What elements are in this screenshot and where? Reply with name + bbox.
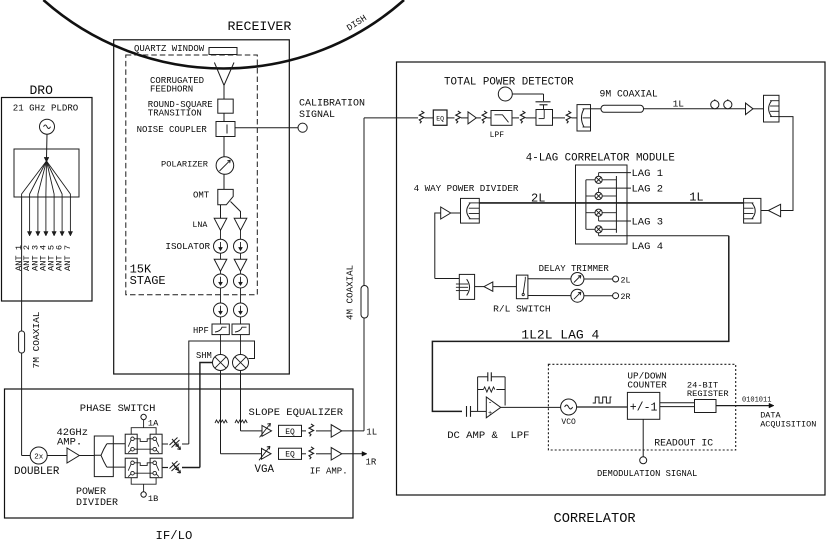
svg-text:1A: 1A xyxy=(148,419,159,429)
svg-text:VCO: VCO xyxy=(561,418,576,427)
svg-text:CORRELATOR: CORRELATOR xyxy=(554,512,636,527)
svg-text:LAG 1: LAG 1 xyxy=(632,168,664,180)
svg-text:SIGNAL: SIGNAL xyxy=(299,110,335,121)
svg-text:2R: 2R xyxy=(621,293,631,302)
svg-text:SHM: SHM xyxy=(196,351,212,361)
svg-text:AMP.: AMP. xyxy=(57,437,82,449)
svg-text:9M COAXIAL: 9M COAXIAL xyxy=(600,88,658,99)
svg-text:2L: 2L xyxy=(531,192,545,206)
svg-text:2x: 2x xyxy=(34,453,44,461)
svg-text:DRO: DRO xyxy=(30,83,54,98)
svg-text:DELAY TRIMMER: DELAY TRIMMER xyxy=(539,264,610,274)
svg-text:EQ: EQ xyxy=(285,451,295,460)
svg-text:EQ: EQ xyxy=(436,116,444,123)
svg-text:CALIBRATION: CALIBRATION xyxy=(299,99,365,110)
svg-text:1L: 1L xyxy=(673,98,685,109)
svg-text:DC AMP & LPF: DC AMP & LPF xyxy=(447,430,529,442)
svg-text:21 GHz PLDRO: 21 GHz PLDRO xyxy=(13,103,79,114)
svg-text:EQ: EQ xyxy=(285,428,295,437)
svg-text:LPF: LPF xyxy=(490,131,505,140)
svg-text:2L: 2L xyxy=(621,276,631,285)
svg-text:0101011: 0101011 xyxy=(742,396,771,404)
svg-text:1L: 1L xyxy=(366,427,377,437)
svg-text:TRANSITION: TRANSITION xyxy=(148,109,202,119)
svg-text:ANT 7: ANT 7 xyxy=(63,245,73,271)
svg-text:TOTAL POWER DETECTOR: TOTAL POWER DETECTOR xyxy=(444,76,574,88)
svg-text:NOISE COUPLER: NOISE COUPLER xyxy=(137,125,208,135)
svg-text:7M COAXIAL: 7M COAXIAL xyxy=(31,311,42,368)
svg-text:-: - xyxy=(488,399,492,407)
svg-text:4 WAY POWER DIVIDER: 4 WAY POWER DIVIDER xyxy=(414,183,519,194)
svg-text:POWER: POWER xyxy=(76,487,106,498)
svg-text:ACQUISITION: ACQUISITION xyxy=(760,420,816,430)
svg-text:QUARTZ WINDOW: QUARTZ WINDOW xyxy=(134,44,205,54)
svg-text:+/-1: +/-1 xyxy=(630,402,658,415)
svg-text:IF/LO: IF/LO xyxy=(156,529,193,541)
svg-text:RECEIVER: RECEIVER xyxy=(228,19,292,34)
svg-text:R/L SWITCH: R/L SWITCH xyxy=(493,304,551,315)
svg-text:READOUT IC: READOUT IC xyxy=(654,437,713,448)
svg-text:DIVIDER: DIVIDER xyxy=(76,498,118,509)
svg-text:PHASE SWITCH: PHASE SWITCH xyxy=(80,403,156,415)
svg-text:DOUBLER: DOUBLER xyxy=(14,466,60,478)
svg-text:+: + xyxy=(488,410,492,418)
svg-text:4-LAG CORRELATOR MODULE: 4-LAG CORRELATOR MODULE xyxy=(526,153,675,165)
svg-text:IF AMP.: IF AMP. xyxy=(310,467,348,477)
svg-text:4M COAXIAL: 4M COAXIAL xyxy=(345,265,356,320)
svg-text:LAG 3: LAG 3 xyxy=(632,217,664,229)
svg-text:OMT: OMT xyxy=(193,191,210,201)
svg-text:REGISTER: REGISTER xyxy=(687,389,729,399)
svg-text:1L2L LAG 4: 1L2L LAG 4 xyxy=(521,328,599,343)
svg-text:1B: 1B xyxy=(148,494,158,504)
svg-text:POLARIZER: POLARIZER xyxy=(161,160,208,170)
svg-text:FEEDHORN: FEEDHORN xyxy=(150,85,193,95)
svg-text:COUNTER: COUNTER xyxy=(627,379,667,390)
svg-text:LAG 2: LAG 2 xyxy=(632,184,664,196)
svg-text:LNA: LNA xyxy=(192,221,207,230)
svg-text:1R: 1R xyxy=(366,458,377,468)
svg-text:HPF: HPF xyxy=(193,326,209,336)
svg-text:1L: 1L xyxy=(689,190,703,204)
svg-text:DEMODULATION SIGNAL: DEMODULATION SIGNAL xyxy=(597,469,697,479)
svg-text:STAGE: STAGE xyxy=(130,274,166,288)
svg-text:LAG 4: LAG 4 xyxy=(632,241,664,253)
svg-text:SLOPE EQUALIZER: SLOPE EQUALIZER xyxy=(249,407,344,419)
svg-text:VGA: VGA xyxy=(255,464,275,476)
svg-text:ISOLATOR: ISOLATOR xyxy=(165,241,210,252)
